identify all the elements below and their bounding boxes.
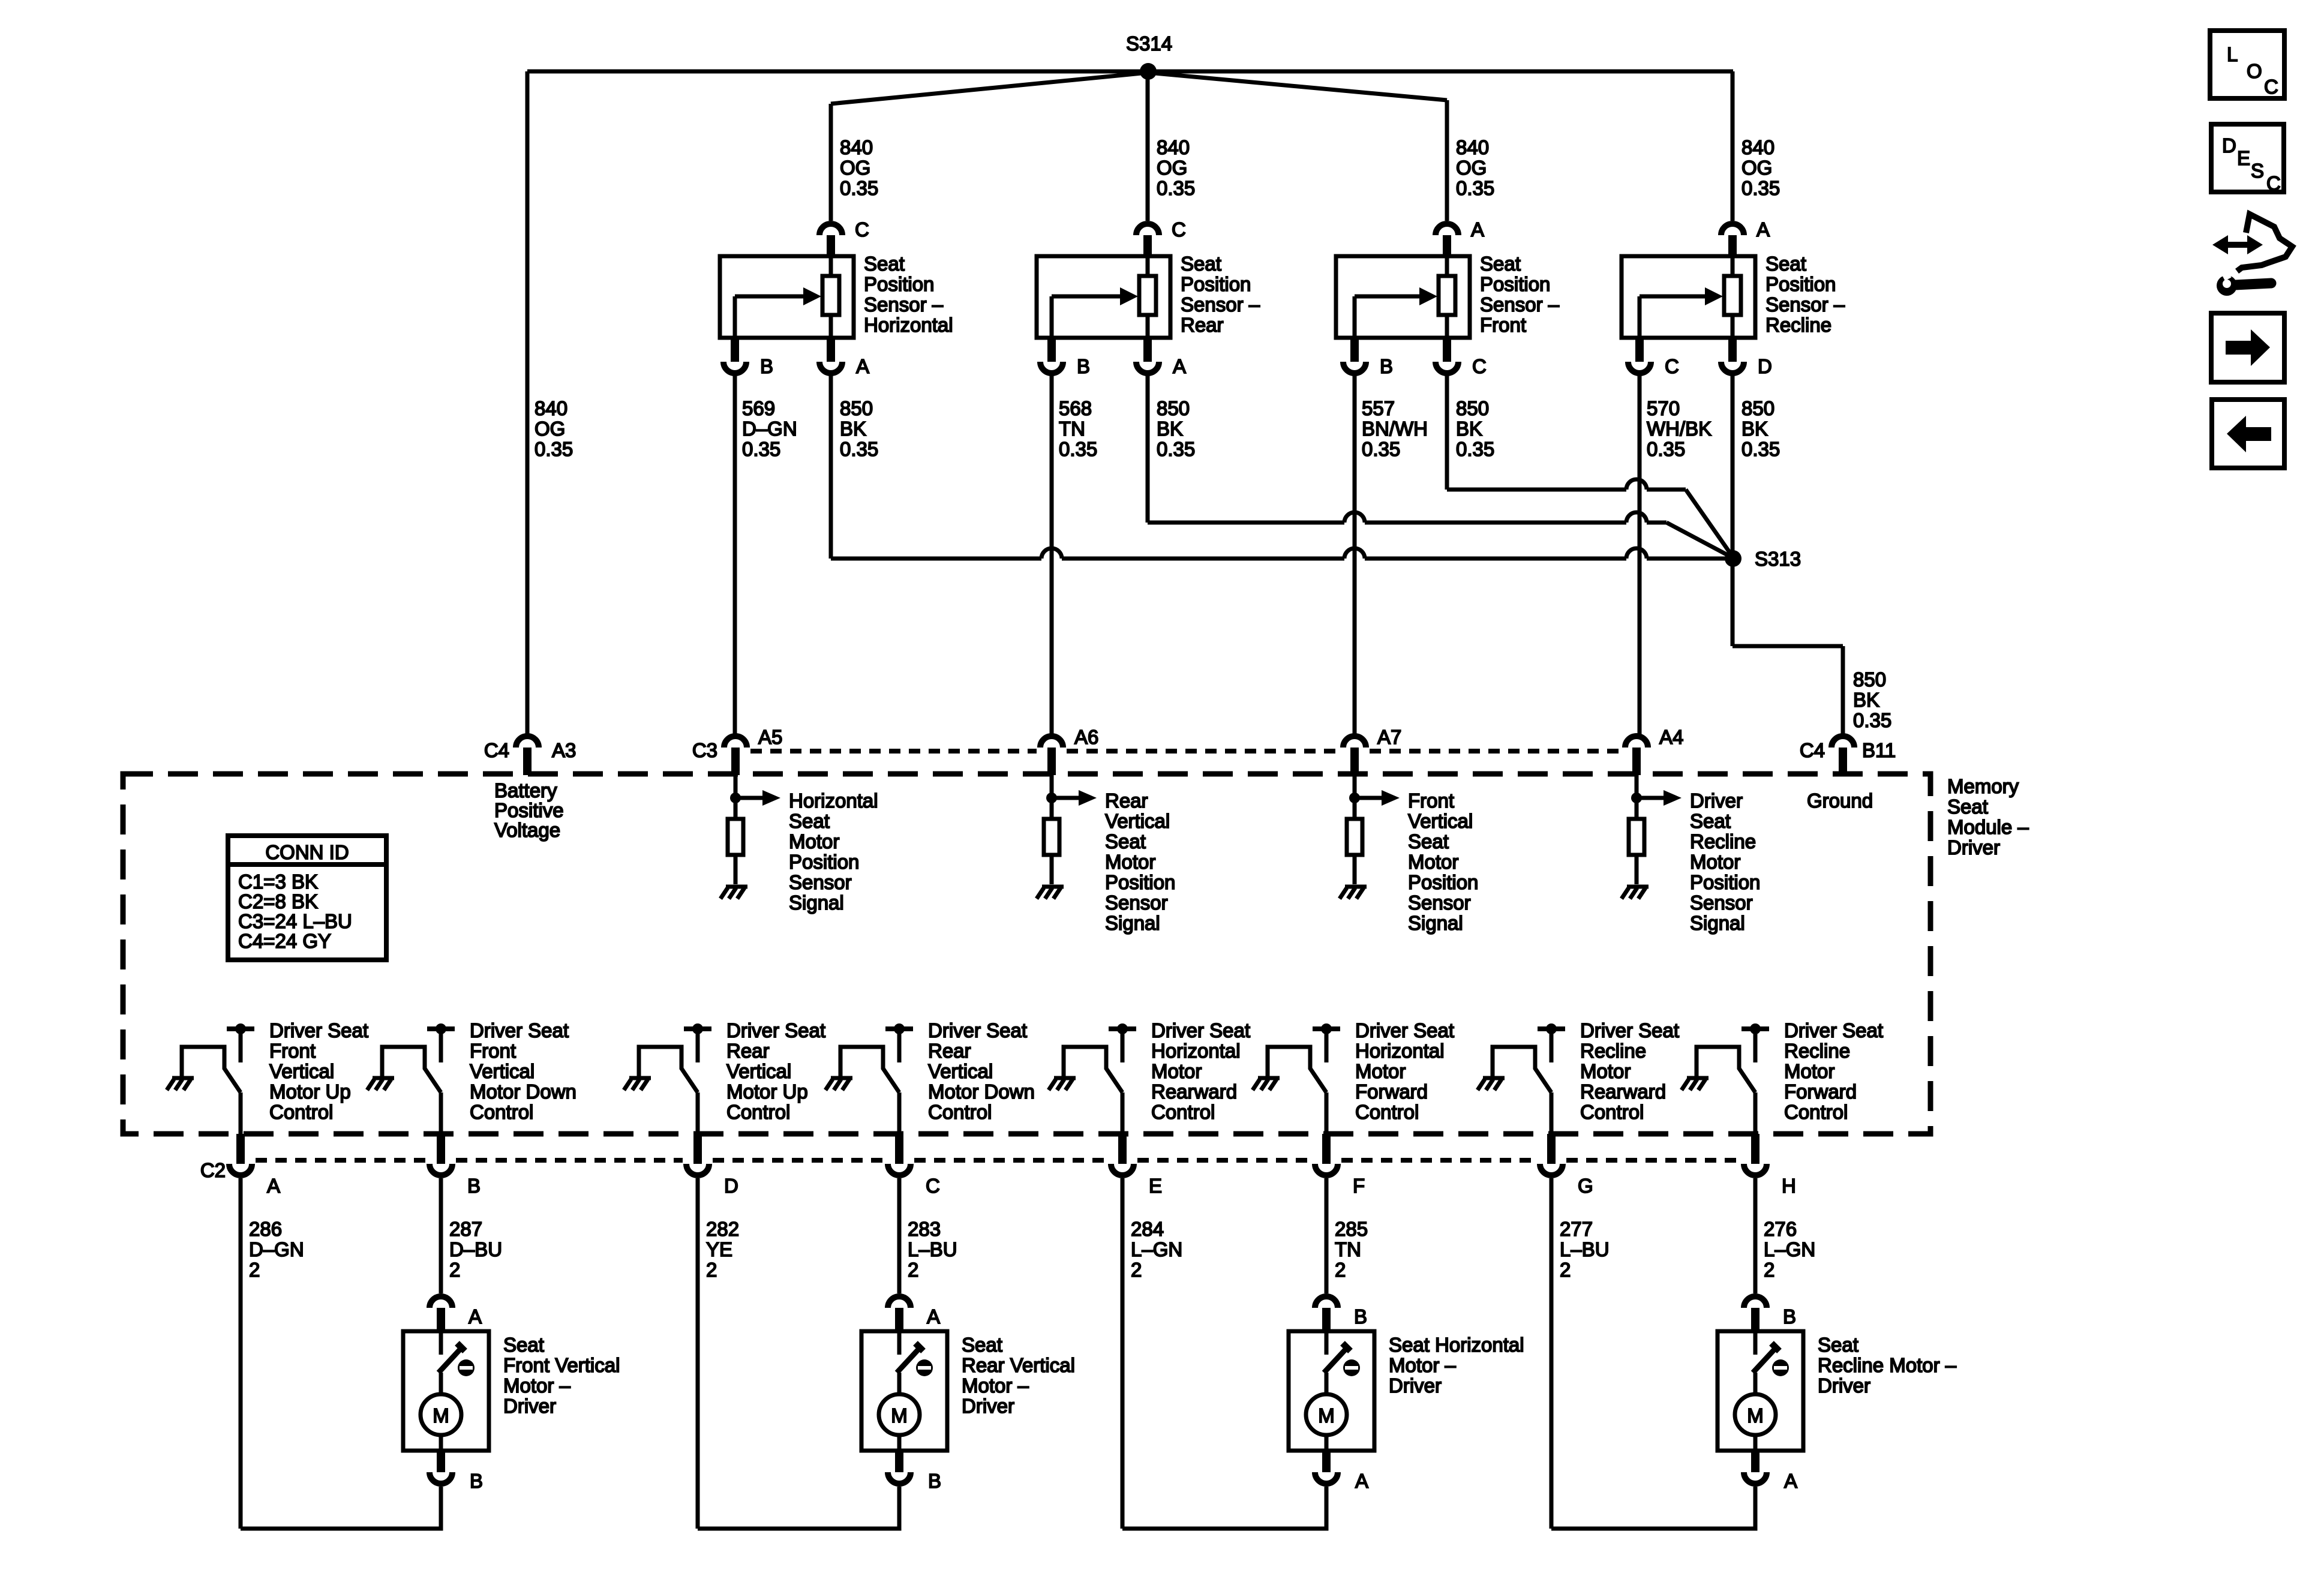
svg-text:A: A bbox=[1756, 218, 1770, 241]
thermal breaker symbol seat horizontal motor driver bbox=[1343, 1359, 1360, 1376]
wire motor return loop seat front vertical motor driver bbox=[241, 1487, 441, 1529]
connector pin A7 bbox=[1343, 736, 1366, 748]
ground switch horizontal motor forward bbox=[1258, 1076, 1280, 1080]
svg-text:E: E bbox=[1149, 1175, 1162, 1197]
wiper arrow sensor 3 bbox=[1353, 296, 1357, 338]
wire resistor to ground horizontal bbox=[734, 855, 738, 884]
svg-text:Seat: Seat bbox=[1765, 253, 1806, 275]
svg-text:B: B bbox=[760, 355, 773, 377]
svg-text:Motor: Motor bbox=[1355, 1060, 1406, 1082]
svg-text:OG: OG bbox=[1456, 157, 1487, 179]
svg-text:840: 840 bbox=[1742, 136, 1774, 158]
svg-text:L–GN: L–GN bbox=[1764, 1238, 1815, 1260]
thermal breaker symbol seat front vertical motor driver bbox=[458, 1359, 475, 1376]
svg-text:M: M bbox=[1747, 1404, 1764, 1427]
svg-text:A: A bbox=[1784, 1470, 1797, 1492]
switch front vertical motor down contact bbox=[382, 1047, 441, 1092]
svg-text:B: B bbox=[1380, 355, 1393, 377]
icon DESC box bbox=[2211, 124, 2284, 192]
svg-text:Horizontal: Horizontal bbox=[864, 314, 953, 336]
svg-text:Position: Position bbox=[1690, 871, 1760, 893]
icon forward arrow box bbox=[2211, 313, 2284, 382]
potentiometer element sensor 4 bbox=[1724, 276, 1741, 315]
svg-text:Motor –: Motor – bbox=[962, 1374, 1029, 1397]
connector pin B seat horizontal motor driver bbox=[1315, 1296, 1338, 1308]
svg-text:Control: Control bbox=[1580, 1101, 1644, 1123]
svg-text:C: C bbox=[1665, 355, 1679, 377]
wire 568 TN sensor2 B to module A6 bbox=[1050, 373, 1054, 734]
thermal breaker symbol seat recline motor driver bbox=[1772, 1359, 1789, 1376]
svg-text:A: A bbox=[927, 1305, 940, 1328]
svg-text:2: 2 bbox=[1560, 1259, 1571, 1281]
switch horizontal motor rearward contact bbox=[1064, 1047, 1122, 1092]
svg-text:C: C bbox=[926, 1175, 940, 1197]
svg-text:A: A bbox=[267, 1175, 280, 1197]
svg-text:Position: Position bbox=[1765, 273, 1836, 295]
wire slant S314 to front sensor drop bbox=[1148, 73, 1447, 100]
svg-text:Driver: Driver bbox=[503, 1395, 556, 1417]
svg-text:850: 850 bbox=[840, 397, 873, 419]
connector pin A seat position sensor 3 bbox=[1436, 224, 1458, 235]
switch rear vertical motor up control T terminal bbox=[684, 1026, 711, 1031]
connector pin C sensor 3 bbox=[1443, 338, 1451, 362]
wire slant S314 to horizontal sensor drop bbox=[831, 73, 1148, 104]
svg-text:Rear: Rear bbox=[1181, 314, 1224, 336]
connector pin A4 bbox=[1625, 736, 1648, 748]
svg-text:Module –: Module – bbox=[1947, 816, 2029, 838]
switch element seat rear vertical motor driver bbox=[897, 1331, 902, 1355]
svg-text:Vertical: Vertical bbox=[470, 1060, 535, 1082]
svg-text:E: E bbox=[2237, 147, 2250, 169]
svg-text:BK: BK bbox=[1456, 418, 1482, 440]
svg-text:Driver: Driver bbox=[1389, 1374, 1442, 1397]
svg-text:TN: TN bbox=[1059, 418, 1085, 440]
svg-text:Motor Down: Motor Down bbox=[928, 1080, 1035, 1103]
svg-text:Signal: Signal bbox=[789, 891, 844, 914]
svg-text:850: 850 bbox=[1456, 397, 1489, 419]
resistor driver signal bbox=[1629, 819, 1644, 855]
svg-text:Ground: Ground bbox=[1807, 789, 1873, 812]
svg-text:Sensor –: Sensor – bbox=[1480, 293, 1560, 316]
svg-text:287: 287 bbox=[449, 1218, 482, 1240]
svg-text:D: D bbox=[724, 1175, 738, 1197]
signal arrow driver bbox=[1637, 796, 1666, 800]
svg-text:S314: S314 bbox=[1126, 32, 1172, 55]
svg-text:0.35: 0.35 bbox=[1647, 438, 1685, 460]
svg-text:2: 2 bbox=[249, 1259, 260, 1281]
svg-text:B: B bbox=[1783, 1305, 1796, 1328]
svg-text:Seat Horizontal: Seat Horizontal bbox=[1389, 1334, 1524, 1356]
connector C4 pin B11 ground bbox=[1831, 736, 1854, 748]
svg-text:Motor: Motor bbox=[1580, 1060, 1631, 1082]
wire motor feed at x=2211 bbox=[1325, 1178, 1329, 1293]
node S314 junction bbox=[1140, 63, 1157, 80]
wire front sensor signal inside module bbox=[1353, 775, 1357, 819]
wire motor to box bottom seat recline motor driver bbox=[1753, 1435, 1758, 1451]
svg-text:Motor Up: Motor Up bbox=[726, 1080, 808, 1103]
svg-text:286: 286 bbox=[249, 1218, 282, 1240]
svg-text:Sensor –: Sensor – bbox=[1765, 293, 1845, 316]
switch horizontal motor rearward control T terminal bbox=[1109, 1026, 1136, 1031]
connector pin A sensor 1 bbox=[827, 338, 835, 362]
wire motor to box bottom seat front vertical motor driver bbox=[439, 1435, 443, 1451]
wiper arrow sensor 2 bbox=[1050, 296, 1054, 338]
svg-text:Seat: Seat bbox=[789, 810, 830, 832]
svg-text:Position: Position bbox=[1105, 871, 1175, 893]
svg-text:M: M bbox=[1318, 1404, 1335, 1427]
wire 570 WH/BK sensor4 C to module A4 bbox=[1638, 373, 1642, 734]
svg-text:S313: S313 bbox=[1755, 548, 1801, 570]
svg-text:Position: Position bbox=[864, 273, 934, 295]
connector pin D sensor 4 bbox=[1728, 338, 1737, 362]
svg-text:C4: C4 bbox=[1800, 739, 1825, 761]
ground switch front vertical motor down bbox=[373, 1076, 394, 1080]
seat recline motor driver box bbox=[1718, 1331, 1803, 1451]
wire motor return loop seat recline motor driver bbox=[1551, 1487, 1755, 1529]
svg-text:Position: Position bbox=[1408, 871, 1478, 893]
connector pin A seat horizontal motor driver bbox=[1322, 1451, 1331, 1472]
wire rear sensor signal inside module bbox=[1050, 775, 1054, 819]
svg-text:Horizontal: Horizontal bbox=[1355, 1040, 1445, 1062]
thermal breaker symbol seat rear vertical motor driver bbox=[916, 1359, 933, 1376]
wire motor to box bottom seat rear vertical motor driver bbox=[897, 1435, 902, 1451]
svg-text:Control: Control bbox=[1784, 1101, 1848, 1123]
svg-text:Driver Seat: Driver Seat bbox=[1355, 1019, 1454, 1041]
connector C3 pin A5 bbox=[724, 736, 747, 748]
svg-text:569: 569 bbox=[742, 397, 775, 419]
svg-text:0.35: 0.35 bbox=[1362, 438, 1400, 460]
svg-text:BK: BK bbox=[1853, 689, 1879, 711]
svg-text:Vertical: Vertical bbox=[928, 1060, 993, 1082]
svg-text:557: 557 bbox=[1362, 397, 1395, 419]
svg-text:Vertical: Vertical bbox=[726, 1060, 791, 1082]
svg-text:A7: A7 bbox=[1377, 726, 1401, 748]
wire motor to box bottom seat horizontal motor driver bbox=[1325, 1435, 1329, 1451]
svg-text:A: A bbox=[1355, 1470, 1368, 1492]
svg-text:M: M bbox=[891, 1404, 908, 1427]
svg-text:Motor: Motor bbox=[1105, 851, 1155, 873]
connector pin A module bottom bbox=[236, 1134, 245, 1164]
svg-text:Forward: Forward bbox=[1784, 1080, 1857, 1103]
connector pin A6 bbox=[1040, 736, 1063, 748]
svg-text:Control: Control bbox=[726, 1101, 790, 1123]
svg-text:B: B bbox=[470, 1470, 483, 1492]
svg-text:C2: C2 bbox=[200, 1159, 226, 1181]
svg-text:Motor: Motor bbox=[1408, 851, 1458, 873]
wiper arrow sensor 4 bbox=[1638, 296, 1642, 338]
svg-text:568: 568 bbox=[1059, 397, 1092, 419]
svg-text:B11: B11 bbox=[1862, 739, 1896, 761]
wire 850 BK sensor1 A to S313 bbox=[829, 373, 833, 559]
svg-text:Horizontal: Horizontal bbox=[789, 789, 878, 812]
svg-text:C: C bbox=[1172, 218, 1186, 241]
svg-text:BK: BK bbox=[1742, 418, 1768, 440]
wire motor return at x=1871 bbox=[1121, 1178, 1125, 1529]
svg-text:Driver Seat: Driver Seat bbox=[726, 1019, 825, 1041]
svg-text:Rearward: Rearward bbox=[1580, 1080, 1666, 1103]
svg-text:Rear: Rear bbox=[1105, 789, 1148, 812]
svg-text:850: 850 bbox=[1157, 397, 1190, 419]
motor M circle seat horizontal motor driver bbox=[1306, 1394, 1347, 1435]
svg-text:L–BU: L–BU bbox=[908, 1238, 957, 1260]
svg-text:Driver: Driver bbox=[1947, 836, 2000, 858]
connector pin B sensor 1 bbox=[731, 338, 739, 362]
svg-text:840: 840 bbox=[840, 136, 873, 158]
junction dot horizontal signal bbox=[730, 792, 741, 803]
svg-text:Sensor –: Sensor – bbox=[1181, 293, 1260, 316]
svg-text:Seat: Seat bbox=[503, 1334, 544, 1356]
svg-text:850: 850 bbox=[1742, 397, 1774, 419]
connector pin B sensor 2 bbox=[1047, 338, 1056, 362]
connector pin A sensor 2 bbox=[1143, 338, 1152, 362]
connector pin C module bottom bbox=[895, 1134, 903, 1164]
switch horizontal motor forward contact bbox=[1268, 1047, 1326, 1092]
ground switch front vertical motor up bbox=[172, 1076, 194, 1080]
svg-text:OG: OG bbox=[1742, 157, 1772, 179]
wire 850 BK S313 to module B11 bbox=[1733, 644, 1843, 649]
svg-text:2: 2 bbox=[1764, 1259, 1774, 1281]
svg-text:Motor –: Motor – bbox=[503, 1374, 571, 1397]
svg-text:C: C bbox=[855, 218, 869, 241]
switch element seat horizontal motor driver bbox=[1325, 1331, 1329, 1355]
svg-text:B: B bbox=[467, 1175, 481, 1197]
svg-text:0.35: 0.35 bbox=[1059, 438, 1097, 460]
svg-text:A: A bbox=[856, 355, 869, 377]
svg-text:Seat: Seat bbox=[1408, 830, 1449, 852]
svg-text:Driver Seat: Driver Seat bbox=[269, 1019, 368, 1041]
svg-text:Position: Position bbox=[1181, 273, 1251, 295]
svg-text:282: 282 bbox=[706, 1218, 739, 1240]
svg-text:Position: Position bbox=[789, 851, 859, 873]
svg-text:A: A bbox=[1471, 218, 1484, 241]
wire motor feed at x=735 bbox=[439, 1178, 443, 1293]
wire 840 OG battery positive voltage drop bbox=[526, 71, 530, 734]
svg-text:2: 2 bbox=[706, 1259, 717, 1281]
icon harness repair bbox=[2212, 235, 2263, 254]
switch element seat front vertical motor driver bbox=[439, 1331, 443, 1355]
svg-text:Vertical: Vertical bbox=[1408, 810, 1473, 832]
CONN ID table separator bbox=[228, 862, 386, 867]
wire driver sensor signal inside module bbox=[1635, 775, 1639, 819]
svg-text:2: 2 bbox=[1335, 1259, 1346, 1281]
connector pin B module bottom bbox=[437, 1134, 445, 1164]
wire resistor to ground driver bbox=[1635, 855, 1639, 884]
connector pin E module bottom bbox=[1118, 1134, 1127, 1164]
svg-text:Driver Seat: Driver Seat bbox=[470, 1019, 569, 1041]
svg-text:277: 277 bbox=[1560, 1218, 1593, 1240]
signal arrow rear bbox=[1052, 796, 1081, 800]
wire motor return loop seat rear vertical motor driver bbox=[698, 1487, 899, 1529]
wire 569 D-GN sensor1 B to module A5 bbox=[733, 373, 737, 734]
svg-text:850: 850 bbox=[1853, 668, 1886, 691]
ground switch rear vertical motor up bbox=[629, 1076, 651, 1080]
svg-text:Control: Control bbox=[1151, 1101, 1215, 1123]
svg-text:L–GN: L–GN bbox=[1131, 1238, 1182, 1260]
svg-text:Front: Front bbox=[470, 1040, 516, 1062]
svg-text:OG: OG bbox=[1157, 157, 1187, 179]
svg-text:Control: Control bbox=[470, 1101, 533, 1123]
connector pin A seat front vertical motor driver bbox=[430, 1296, 452, 1308]
svg-text:C: C bbox=[2266, 172, 2281, 194]
svg-text:Forward: Forward bbox=[1355, 1080, 1428, 1103]
seat rear vertical motor driver box bbox=[861, 1331, 947, 1451]
svg-text:2: 2 bbox=[908, 1259, 918, 1281]
svg-text:276: 276 bbox=[1764, 1218, 1797, 1240]
svg-text:BN/WH: BN/WH bbox=[1362, 418, 1428, 440]
potentiometer element sensor 2 bbox=[1139, 276, 1156, 315]
svg-text:Driver Seat: Driver Seat bbox=[1784, 1019, 1883, 1041]
svg-text:Front: Front bbox=[1408, 789, 1454, 812]
connector pin C seat position sensor 2 bbox=[1136, 224, 1159, 235]
svg-text:0.35: 0.35 bbox=[840, 438, 878, 460]
svg-text:Rear: Rear bbox=[928, 1040, 971, 1062]
wire 840 OG drop to sensor 4 pin A bbox=[1731, 71, 1735, 221]
svg-text:Driver: Driver bbox=[1690, 789, 1743, 812]
svg-text:Seat: Seat bbox=[962, 1334, 1002, 1356]
svg-text:A: A bbox=[1173, 355, 1186, 377]
svg-text:CONN ID: CONN ID bbox=[265, 841, 349, 863]
svg-text:YE: YE bbox=[706, 1238, 732, 1260]
svg-text:Position: Position bbox=[1480, 273, 1550, 295]
svg-text:C: C bbox=[2264, 76, 2278, 98]
svg-text:Vertical: Vertical bbox=[1105, 810, 1170, 832]
wire 850 BK sensor2 A to S313 bbox=[1146, 373, 1150, 523]
svg-text:Control: Control bbox=[269, 1101, 333, 1123]
seat position sensor 2 box bbox=[1037, 256, 1170, 338]
switch horizontal motor forward control T terminal bbox=[1313, 1026, 1340, 1031]
seat horizontal motor driver box bbox=[1289, 1331, 1374, 1451]
svg-text:285: 285 bbox=[1335, 1218, 1368, 1240]
svg-text:Memory: Memory bbox=[1947, 775, 2019, 797]
seat position sensor 1 box bbox=[720, 256, 854, 338]
wire 840 OG drop to sensor 1 pin C bbox=[829, 104, 833, 221]
resistor horizontal signal bbox=[728, 819, 743, 855]
resistor front signal bbox=[1347, 819, 1362, 855]
svg-text:Rearward: Rearward bbox=[1151, 1080, 1237, 1103]
svg-text:Motor: Motor bbox=[1151, 1060, 1202, 1082]
svg-text:OG: OG bbox=[535, 418, 565, 440]
svg-text:Positive: Positive bbox=[494, 799, 564, 821]
svg-text:A5: A5 bbox=[758, 726, 782, 748]
connector pin G module bottom bbox=[1547, 1134, 1556, 1164]
svg-text:D: D bbox=[1758, 355, 1772, 377]
wire motor feed at x=1499 bbox=[897, 1178, 902, 1293]
wire 840 OG drop to sensor 3 pin A bbox=[1445, 100, 1449, 221]
svg-text:C3: C3 bbox=[692, 739, 717, 761]
wire motor return at x=401 bbox=[239, 1178, 243, 1529]
wiper arrow sensor 1 bbox=[733, 296, 737, 338]
node S313 junction bbox=[1725, 550, 1742, 567]
icon back arrow box bbox=[2212, 400, 2284, 468]
svg-text:Control: Control bbox=[1355, 1101, 1419, 1123]
svg-text:2: 2 bbox=[1131, 1259, 1142, 1281]
ground front signal bbox=[1345, 885, 1367, 889]
motor M circle seat recline motor driver bbox=[1735, 1394, 1776, 1435]
ground rear signal bbox=[1042, 885, 1064, 889]
svg-text:0.35: 0.35 bbox=[535, 438, 573, 460]
svg-text:570: 570 bbox=[1647, 397, 1680, 419]
connector pin A seat rear vertical motor driver bbox=[888, 1296, 911, 1308]
svg-text:Seat: Seat bbox=[1818, 1334, 1858, 1356]
svg-text:L: L bbox=[2227, 43, 2238, 65]
wire motor return loop seat horizontal motor driver bbox=[1122, 1487, 1326, 1529]
ground switch horizontal motor rearward bbox=[1054, 1076, 1076, 1080]
svg-text:BK: BK bbox=[1157, 418, 1183, 440]
svg-text:Motor: Motor bbox=[789, 830, 839, 852]
svg-text:Motor: Motor bbox=[1690, 851, 1740, 873]
svg-text:B: B bbox=[1077, 355, 1090, 377]
svg-text:TN: TN bbox=[1335, 1238, 1361, 1260]
dotted connector bus bottom row bbox=[256, 1158, 426, 1163]
switch rear vertical motor up contact bbox=[639, 1047, 698, 1092]
svg-text:0.35: 0.35 bbox=[742, 438, 780, 460]
dotted connector bus top row bbox=[750, 749, 1037, 754]
ground horizontal signal bbox=[726, 885, 747, 889]
connector pin B seat recline motor driver bbox=[1744, 1296, 1767, 1308]
svg-text:2: 2 bbox=[449, 1259, 460, 1281]
seat position sensor 4 box bbox=[1622, 256, 1755, 338]
svg-text:0.35: 0.35 bbox=[1456, 438, 1494, 460]
svg-text:Motor: Motor bbox=[1784, 1060, 1834, 1082]
motor M circle seat front vertical motor driver bbox=[421, 1394, 461, 1435]
svg-text:C: C bbox=[1472, 355, 1487, 377]
svg-text:C1=3 BK: C1=3 BK bbox=[238, 870, 318, 893]
svg-text:Front Vertical: Front Vertical bbox=[503, 1354, 620, 1376]
svg-text:D–BU: D–BU bbox=[449, 1238, 502, 1260]
wire 557 BN/WH sensor3 B to module A7 bbox=[1353, 373, 1357, 734]
icon LOC box bbox=[2210, 31, 2284, 98]
connector pin B seat front vertical motor driver bbox=[437, 1451, 445, 1472]
svg-text:Driver: Driver bbox=[962, 1395, 1014, 1417]
svg-text:0.35: 0.35 bbox=[1742, 438, 1780, 460]
svg-text:A6: A6 bbox=[1074, 726, 1098, 748]
svg-text:Driver: Driver bbox=[1818, 1374, 1870, 1397]
wire resistor to ground front bbox=[1353, 855, 1357, 884]
switch recline motor rearward contact bbox=[1493, 1047, 1551, 1092]
connector C4 pin A3 battery positive bbox=[516, 736, 539, 748]
svg-text:C2=8 BK: C2=8 BK bbox=[238, 890, 318, 912]
motor M circle seat rear vertical motor driver bbox=[879, 1394, 920, 1435]
svg-text:Motor Up: Motor Up bbox=[269, 1080, 351, 1103]
svg-text:A: A bbox=[469, 1305, 482, 1328]
svg-text:Front: Front bbox=[269, 1040, 316, 1062]
junction dot driver signal bbox=[1631, 792, 1642, 803]
svg-text:A4: A4 bbox=[1659, 726, 1683, 748]
svg-text:0.35: 0.35 bbox=[1157, 177, 1195, 199]
svg-text:Driver Seat: Driver Seat bbox=[1580, 1019, 1679, 1041]
svg-text:F: F bbox=[1353, 1175, 1365, 1197]
junction dot front signal bbox=[1349, 792, 1360, 803]
svg-text:Front: Front bbox=[1480, 314, 1526, 336]
svg-text:G: G bbox=[1578, 1175, 1593, 1197]
connector pin A seat position sensor 4 bbox=[1721, 224, 1744, 235]
svg-text:C3=24 L–BU: C3=24 L–BU bbox=[238, 910, 352, 932]
svg-text:0.35: 0.35 bbox=[1157, 438, 1195, 460]
wire horizontal sensor signal inside module bbox=[734, 775, 738, 819]
svg-text:Motor –: Motor – bbox=[1389, 1354, 1457, 1376]
CONN ID table box bbox=[228, 836, 386, 960]
switch front vertical motor down control T terminal bbox=[427, 1026, 455, 1031]
svg-text:A3: A3 bbox=[552, 739, 576, 761]
switch front vertical motor up control T terminal bbox=[227, 1026, 254, 1031]
wire 850 BK sensor4 D through S313 bbox=[1731, 373, 1735, 646]
memory seat module dashed border bbox=[123, 774, 1930, 1134]
svg-text:Seat: Seat bbox=[1480, 253, 1521, 275]
svg-text:Horizontal: Horizontal bbox=[1151, 1040, 1241, 1062]
svg-text:840: 840 bbox=[1456, 136, 1489, 158]
svg-text:BK: BK bbox=[840, 418, 866, 440]
svg-text:Battery: Battery bbox=[494, 779, 557, 801]
